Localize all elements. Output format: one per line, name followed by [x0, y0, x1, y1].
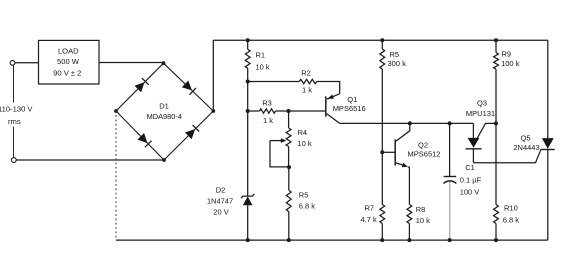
- svg-text:20 V: 20 V: [213, 208, 228, 217]
- svg-text:R1: R1: [256, 51, 266, 60]
- wire: bottom negative rail: [116, 239, 548, 241]
- wire: top rail to R1: [247, 40, 249, 49]
- resistor R8 10 k: [407, 205, 430, 225]
- svg-text:90 V ± 2: 90 V ± 2: [53, 69, 81, 78]
- svg-text:R5: R5: [299, 191, 309, 200]
- wire: load to bridge top vertex: [99, 62, 164, 64]
- wire: bridge right vertex to top rail: [212, 40, 214, 111]
- load box LOAD 500 W: [39, 40, 100, 84]
- svg-text:1 k: 1 k: [263, 116, 273, 125]
- svg-text:MDA980-4: MDA980-4: [147, 112, 182, 121]
- resistor R9 100 k: [494, 50, 520, 70]
- terminal: AC line bottom: [11, 158, 16, 163]
- transistor Q2 MPS6512: [382, 123, 440, 204]
- svg-text:100 k: 100 k: [501, 59, 520, 68]
- wire: bridge left vertex drop to bottom rail: [115, 111, 117, 240]
- svg-text:2N4443: 2N4443: [513, 143, 539, 152]
- wire: zener D2 to bottom rail: [247, 205, 249, 240]
- svg-text:MPS6516: MPS6516: [333, 104, 366, 113]
- svg-text:Q1: Q1: [347, 95, 357, 104]
- svg-text:10 k: 10 k: [416, 216, 430, 225]
- svg-text:R4: R4: [298, 128, 308, 137]
- wire: top rail to R6: [381, 40, 383, 49]
- svg-text:100 V: 100 V: [460, 187, 480, 196]
- wire: R4-R5 junction stub: [288, 167, 290, 190]
- svg-text:6.8 k: 6.8 k: [299, 201, 316, 210]
- resistor R2 1 k: [299, 69, 316, 95]
- wire: R2 to Q1 emitter: [317, 82, 340, 94]
- diode D1a (left-top arm): [135, 78, 149, 92]
- svg-text:R2: R2: [301, 69, 311, 78]
- svg-text:Q5: Q5: [520, 134, 530, 143]
- svg-text:4.7 k: 4.7 k: [361, 215, 378, 224]
- svg-text:10 k: 10 k: [256, 62, 270, 71]
- svg-text:MPU131: MPU131: [466, 109, 495, 118]
- capacitor C1 0.1 uF 100 V: [443, 163, 481, 240]
- svg-text:R9: R9: [502, 50, 512, 59]
- wire: Q1 collector bus to Q3 anode: [340, 122, 474, 124]
- wire: Q5 cathode to bottom rail: [547, 150, 549, 241]
- wire: divider node to R3: [248, 110, 260, 112]
- wire: bottom terminal to bridge AC node: [16, 159, 164, 161]
- svg-text:R5: R5: [390, 50, 400, 59]
- wire: R4 to R5: [288, 147, 290, 168]
- svg-text:MPS6512: MPS6512: [408, 150, 441, 159]
- resistor R6 300 k (printed R5): [380, 49, 406, 69]
- wire: top rail to Q5 anode: [547, 40, 549, 138]
- thyristor Q5 2N4443: [513, 134, 554, 153]
- diode D1d (bottom-right arm): [185, 125, 199, 139]
- wire: bus to C1 top plate: [449, 123, 451, 176]
- wire: Q3 cathode to Q5 gate: [473, 150, 540, 163]
- svg-text:D1: D1: [159, 102, 169, 111]
- svg-text:300 k: 300 k: [388, 59, 407, 68]
- svg-text:500 W: 500 W: [57, 57, 80, 66]
- wire: R9 to gate node to R10: [495, 69, 497, 204]
- svg-text:Q3: Q3: [477, 99, 487, 108]
- resistor R1 10 k: [245, 49, 270, 71]
- wire: R1 node to R2: [248, 81, 300, 83]
- wire: R7 to bottom rail: [381, 224, 383, 241]
- svg-text:R10: R10: [504, 204, 518, 213]
- wire: node to R4: [288, 111, 290, 128]
- wire: R3 to R4 node and Q1 base: [276, 110, 326, 112]
- wire: top positive rail: [213, 39, 548, 41]
- svg-text:6.8 k: 6.8 k: [503, 215, 520, 224]
- wire: R5 to bottom rail: [288, 212, 290, 241]
- wire: top rail to R9: [495, 40, 497, 52]
- svg-text:1N4747: 1N4747: [207, 197, 233, 206]
- label: 110-130 V rms source: [0, 105, 33, 126]
- node: bridge left vertex: [114, 109, 118, 113]
- diode D1b (top-right arm): [182, 81, 196, 95]
- zener diode D2 1N4747 20 V: [207, 185, 255, 216]
- svg-text:R7: R7: [365, 204, 375, 213]
- pot wiper of R4: [270, 138, 289, 167]
- wire: top terminal to load: [15, 62, 39, 64]
- svg-text:R3: R3: [262, 99, 272, 108]
- transistor Q1 MPS6516: [326, 94, 366, 124]
- svg-text:LOAD: LOAD: [58, 46, 79, 55]
- resistor R10 6.8 k: [494, 204, 520, 225]
- resistor R4 10 k (pot): [286, 128, 312, 148]
- transistor Q3 MPU131 (PUT): [466, 99, 496, 163]
- svg-text:0.1 µF: 0.1 µF: [460, 175, 482, 184]
- node: bridge bottom vertex: [162, 158, 166, 162]
- svg-text:R8: R8: [416, 205, 426, 214]
- terminal: AC line top: [10, 60, 15, 65]
- node: bridge top vertex: [162, 61, 166, 65]
- svg-text:D2: D2: [216, 185, 226, 194]
- wire: AC source vertical: [13, 65, 15, 157]
- wire: R10 to bottom rail: [495, 224, 497, 241]
- resistor R5 6.8 k: [286, 190, 315, 211]
- svg-text:110-130 V: 110-130 V: [0, 105, 33, 114]
- svg-text:10 k: 10 k: [298, 139, 312, 148]
- bridge rectifier D1 MDA980-4 frame: [116, 63, 213, 160]
- svg-text:Q2: Q2: [418, 141, 428, 150]
- wire: R8 to bottom rail: [408, 224, 410, 241]
- svg-text:1 k: 1 k: [302, 86, 312, 95]
- resistor R3 1 k: [260, 99, 276, 126]
- svg-text:C1: C1: [465, 163, 475, 172]
- diode D1c (left-bottom arm): [137, 133, 151, 147]
- label D1: [147, 102, 182, 121]
- svg-text:rms: rms: [8, 117, 21, 126]
- wire: R1 to zener D2: [247, 68, 249, 196]
- node: bridge right vertex: [211, 109, 215, 113]
- wire: R6 to Q2 base node to R7: [381, 69, 383, 205]
- resistor R7 4.7 k: [361, 204, 385, 225]
